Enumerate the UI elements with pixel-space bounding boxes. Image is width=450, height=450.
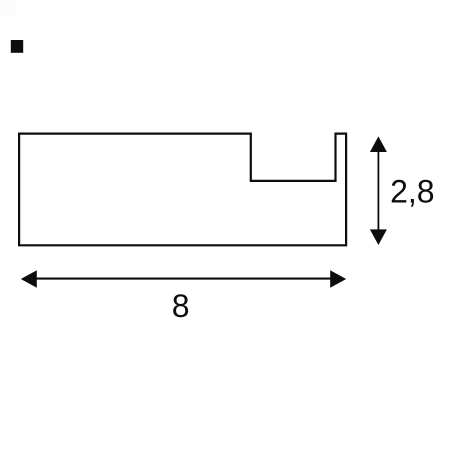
svg-text:8: 8 (172, 288, 190, 324)
vertical dimension bottom arrowhead (370, 229, 387, 245)
horizontal dimension right arrowhead (330, 270, 346, 287)
vertical dimension top arrowhead (370, 136, 387, 152)
profile outline (19, 134, 346, 246)
vertical dimension arrow shaft (377, 148, 379, 233)
horizontal dimension arrow shaft (32, 278, 334, 280)
small black square mark (11, 40, 23, 53)
horizontal dimension left arrowhead (21, 270, 37, 287)
faint corner square (0, 0, 15, 15)
svg-text:2,8: 2,8 (390, 174, 434, 210)
